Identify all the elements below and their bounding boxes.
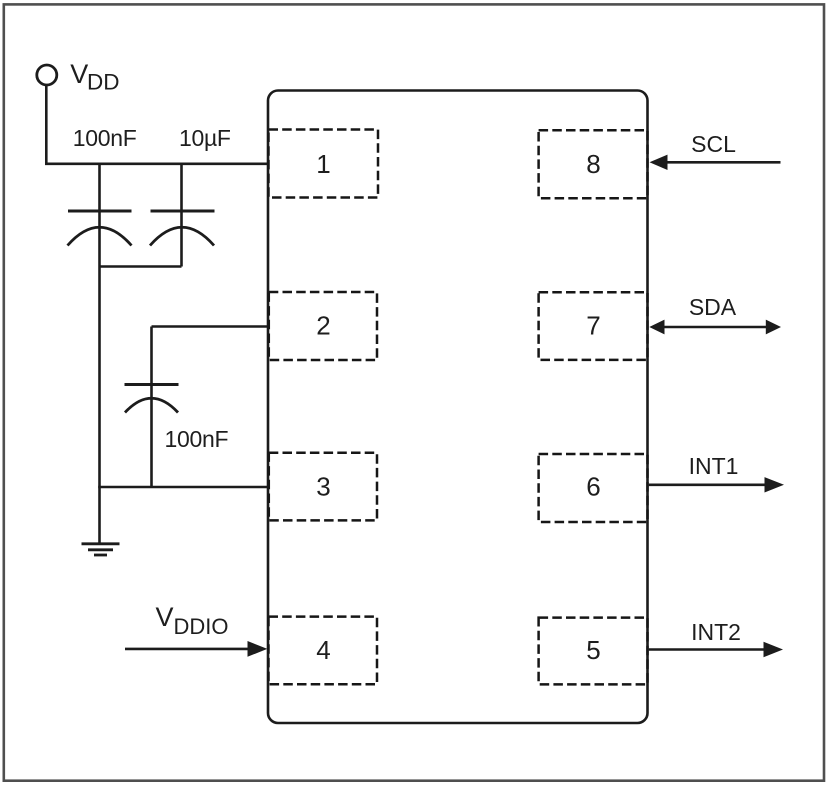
svg-text:SDA: SDA	[689, 294, 737, 320]
wire SCL arrow into pin 8	[650, 155, 781, 170]
svg-text:10µF: 10µF	[179, 125, 231, 151]
pin 1 box	[269, 130, 379, 198]
pin 7 box	[539, 292, 648, 360]
svg-text:4: 4	[316, 635, 330, 665]
svg-text:2: 2	[316, 311, 330, 341]
svg-text:100nF: 100nF	[165, 426, 229, 452]
wire SDA double arrow at pin 7	[649, 320, 781, 335]
pin 5 box	[539, 618, 648, 685]
capacitor C1 100nF	[68, 211, 132, 246]
wire INT2 arrow out of pin 5	[649, 642, 783, 658]
svg-text:100nF: 100nF	[73, 125, 137, 151]
pin 3 box	[269, 453, 377, 521]
pin 6 box	[539, 454, 648, 522]
wire VDDIO arrow into pin 4	[125, 641, 267, 657]
pin 4 box	[269, 617, 378, 685]
wire caps bottom rail	[100, 265, 182, 268]
svg-text:INT1: INT1	[689, 453, 739, 479]
svg-text:8: 8	[586, 149, 600, 179]
capacitor C2 10uF	[150, 211, 215, 246]
wire VDD terminal to rail	[45, 85, 48, 164]
svg-text:6: 6	[586, 472, 600, 502]
svg-text:1: 1	[316, 149, 330, 179]
pin 8 box	[539, 130, 648, 198]
wire capacitor C1 lead	[98, 164, 101, 267]
terminal VDD	[37, 65, 57, 85]
svg-text:SCL: SCL	[691, 131, 736, 157]
ground	[82, 544, 120, 555]
wire left drop to ground	[98, 267, 101, 544]
op-amp U1 IC body	[268, 91, 648, 724]
svg-text:DDIO: DDIO	[174, 614, 229, 639]
wire pin 2 to capacitor C3	[152, 325, 269, 328]
svg-text:7: 7	[586, 311, 600, 341]
svg-text:3: 3	[316, 472, 330, 502]
svg-text:V: V	[156, 602, 174, 632]
wire INT1 arrow out of pin 6	[649, 477, 784, 492]
label VDD	[70, 59, 119, 95]
label VDDIO	[156, 602, 229, 639]
svg-text:INT2: INT2	[691, 619, 741, 645]
svg-text:DD: DD	[87, 70, 120, 95]
capacitor C3 100nF	[125, 385, 179, 413]
wire capacitor C2 lead	[180, 164, 183, 267]
svg-text:V: V	[70, 59, 88, 89]
wire VDD rail to pin 1	[45, 163, 268, 166]
wire capacitor C3 lead	[150, 327, 153, 488]
pin 2 box	[269, 292, 377, 360]
svg-text:5: 5	[586, 635, 600, 665]
wire ground rail to pin 3	[98, 486, 268, 489]
